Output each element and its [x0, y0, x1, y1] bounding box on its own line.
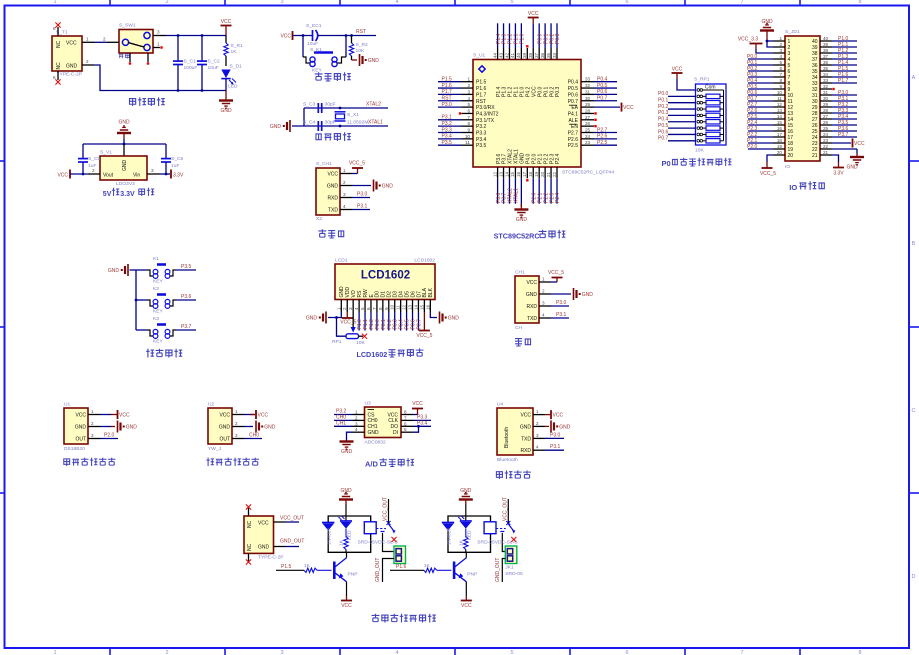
MCU pin 30 [581, 96, 617, 102]
svg-text:4: 4 [354, 307, 359, 310]
svg-text:P0.7: P0.7 [416, 319, 422, 330]
net P0.6 (pull-up) [658, 129, 696, 135]
net CH0 (liquid out) [244, 433, 262, 439]
IO pin 38 net P1.2 [820, 48, 857, 54]
svg-text:7: 7 [404, 415, 407, 420]
svg-text:12: 12 [492, 171, 497, 177]
ADC U3 ADC0832 body [353, 401, 414, 446]
svg-text:2: 2 [235, 421, 238, 426]
svg-text:44: 44 [492, 52, 497, 58]
connector S_CH1 (download) [316, 161, 352, 222]
MCU pin 2 [438, 83, 473, 89]
svg-text:P3.0/RX: P3.0/RX [476, 105, 495, 111]
svg-text:P0: P0 [662, 159, 671, 168]
capacitor S_C3 30pF [303, 102, 336, 127]
svg-text:P3.5: P3.5 [181, 264, 192, 270]
key K3 [136, 316, 176, 345]
svg-text:KEY: KEY [153, 339, 164, 345]
svg-text:P3.4: P3.4 [442, 134, 453, 140]
svg-text:8: 8 [858, 650, 861, 655]
svg-text:P0.5: P0.5 [658, 123, 669, 129]
svg-text:CH1: CH1 [336, 420, 346, 426]
svg-text:2: 2 [355, 415, 358, 420]
reset top rail [293, 34, 377, 37]
svg-text:2: 2 [165, 0, 168, 5]
svg-text:P0.4: P0.4 [568, 80, 579, 86]
capacitor S_C6 1uF [161, 144, 184, 174]
svg-text:P3.1/TX: P3.1/TX [476, 118, 495, 124]
svg-text:5: 5 [467, 102, 470, 107]
svg-text:GND: GND [258, 545, 270, 551]
no-connect X on RP1 [362, 334, 367, 339]
svg-text:1N4007: 1N4007 [327, 528, 333, 545]
MCU pin 6 [459, 108, 473, 114]
svg-text:20: 20 [540, 171, 545, 177]
svg-text:P3.0: P3.0 [550, 432, 561, 438]
svg-text:VCC: VCC [258, 413, 269, 419]
svg-text:GND_OUT: GND_OUT [375, 558, 381, 582]
MCU pin 28 [581, 108, 597, 114]
IO pin 32 net nc [820, 88, 835, 90]
IO pin 16 net P2.3 [747, 126, 785, 132]
top rail wire [166, 34, 226, 37]
no-connect X on T1 shield pins [55, 22, 60, 84]
svg-text:ADC0832: ADC0832 [365, 440, 386, 446]
svg-text:P0.3: P0.3 [555, 33, 561, 44]
svg-text:7: 7 [740, 650, 743, 655]
IO pin 4 net P0.0 [747, 54, 785, 60]
IO pin 35 net P1.5 [820, 66, 857, 72]
svg-text:P1.0: P1.0 [520, 33, 526, 44]
IO pin 20 to VCC_5 [760, 155, 785, 177]
designator SRD-05VDC-SL-C [477, 540, 518, 546]
svg-text:GND: GND [219, 425, 231, 431]
svg-text:P3.3: P3.3 [442, 127, 453, 133]
svg-text:P0.4: P0.4 [597, 77, 608, 83]
svg-text:TXD: TXD [527, 316, 537, 322]
svg-text:CH0: CH0 [249, 433, 259, 439]
caption A/D转换电路 [365, 458, 414, 468]
MCU pin 32 [581, 83, 617, 89]
MCU pin 3 [438, 89, 473, 95]
VCC port (RP1) [672, 67, 696, 91]
svg-text:17: 17 [522, 171, 527, 177]
svg-text:42: 42 [504, 52, 509, 58]
svg-text:39: 39 [522, 52, 527, 58]
net P3.0 (bt) [545, 432, 564, 438]
svg-text:31: 31 [585, 89, 591, 94]
switch S_SW1 [107, 23, 166, 63]
IO pin 31 net P3.0 [820, 90, 857, 96]
svg-text:P0.6: P0.6 [597, 89, 608, 95]
svg-text:6: 6 [625, 650, 628, 655]
svg-text:Bluetooth: Bluetooth [497, 457, 518, 463]
svg-text:5: 5 [510, 650, 513, 655]
svg-text:DS18B20: DS18B20 [64, 446, 85, 452]
svg-text:6: 6 [53, 75, 56, 80]
net P3.2 (ADC CS) [334, 409, 353, 415]
VCC power port (power circuit) [221, 19, 232, 36]
VCC port (liquid) [244, 410, 268, 419]
svg-text:P3.2: P3.2 [442, 121, 453, 127]
svg-text:1: 1 [536, 409, 539, 414]
svg-text:1: 1 [336, 307, 341, 310]
svg-text:STC89C52RC_LQFP44: STC89C52RC_LQFP44 [562, 170, 614, 176]
svg-text:P1.5: P1.5 [476, 80, 487, 86]
LCD pin 6 net P1.2 [369, 312, 375, 331]
svg-text:P3.5: P3.5 [442, 140, 453, 146]
IO pin 5 net P0.1 [747, 60, 785, 66]
svg-text:32: 32 [585, 83, 591, 88]
svg-text:P1.5: P1.5 [442, 77, 453, 83]
IO pin 21 net 3.3V [820, 155, 844, 177]
svg-text:NC: NC [56, 62, 62, 70]
IO pin 23 net VCC [820, 139, 865, 148]
svg-text:S_K1: S_K1 [310, 47, 322, 53]
svg-text:GND: GND [122, 160, 128, 172]
caption 晶振电路 [316, 132, 351, 141]
resistor 1K (led) [458, 529, 468, 550]
net CH1 (ADC) [334, 420, 353, 426]
LCD pin stubs [336, 300, 430, 313]
svg-text:GND: GND [368, 430, 380, 436]
LCD pin 4 net P1.0 [357, 312, 363, 331]
svg-text:S_C5: S_C5 [88, 156, 101, 162]
svg-text:Vin: Vin [133, 173, 140, 179]
MCU pin 37 [534, 23, 543, 59]
IO pin 12 net P2.7 [747, 102, 785, 108]
svg-text:D: D [912, 574, 916, 580]
LCD pin15 BLA to VCC_5 [416, 312, 432, 339]
svg-text:P0.1: P0.1 [658, 98, 669, 104]
svg-text:P3.1: P3.1 [442, 115, 453, 121]
VCC port (temp) [100, 410, 130, 419]
svg-text:S_RP1: S_RP1 [694, 77, 710, 83]
LCD pin16 BLK to GND [430, 312, 459, 324]
3.3V port (ldo output) [160, 170, 184, 179]
svg-text:TXD: TXD [521, 436, 531, 442]
svg-text:S_X1: S_X1 [347, 112, 359, 118]
net GND_OUT [274, 539, 305, 547]
svg-text:STC89C52RC: STC89C52RC [494, 232, 540, 241]
pin 1 VCC of T1 [82, 36, 94, 42]
svg-text:3.3V: 3.3V [833, 171, 844, 177]
svg-text:GND: GND [516, 217, 528, 223]
svg-text:35: 35 [546, 52, 551, 58]
svg-text:S_CH1: S_CH1 [316, 161, 332, 167]
svg-text:VCC: VCC [520, 413, 531, 419]
net P0.1 (pull-up) [658, 98, 696, 104]
MCU pin 7 [438, 115, 473, 121]
crystal bottom wire XTAL1 [292, 120, 388, 128]
IO pin 19 net P2.0 [747, 144, 785, 150]
svg-text:RST: RST [476, 99, 486, 105]
svg-text:2: 2 [342, 307, 347, 310]
svg-text:DI: DI [393, 430, 398, 436]
bottom rail + junctions [177, 89, 204, 92]
svg-text:3: 3 [235, 433, 238, 438]
GND port (serial) [551, 288, 593, 300]
svg-text:30: 30 [585, 96, 591, 101]
MCU pin 21 [546, 167, 555, 204]
svg-text:10K: 10K [356, 48, 365, 54]
svg-text:RP1: RP1 [332, 339, 342, 345]
net CH0 (ADC) [334, 414, 353, 420]
svg-text:VCC: VCC [66, 40, 77, 46]
MCU pin 36 [540, 23, 549, 59]
svg-text:ALE: ALE [569, 118, 579, 124]
svg-text:P3.7: P3.7 [838, 132, 849, 138]
svg-text:9: 9 [467, 128, 470, 133]
GND port (power circuit) [219, 91, 233, 115]
IO pin 40 net P1.0 [820, 36, 857, 42]
svg-text:A/D: A/D [365, 460, 379, 469]
svg-text:2: 2 [103, 36, 106, 41]
svg-text:10K: 10K [695, 148, 704, 154]
connector T2 TYPE-C-2P (relay supply) [244, 508, 284, 561]
IO pin 27 net P3.4 [820, 114, 857, 120]
svg-text:GND: GND [526, 292, 538, 298]
electrolytic capacitor S_EC1 10uF [306, 23, 322, 47]
GND port (keys) [108, 264, 136, 276]
svg-text:NC: NC [56, 40, 62, 48]
svg-text:4: 4 [542, 313, 545, 318]
MCU pin 43 [498, 23, 507, 59]
IO pins 1,2 to GND [766, 40, 785, 47]
relay frame [328, 516, 371, 552]
LCD pin 12 net P0.5 [405, 312, 411, 331]
emitter to VCC port [461, 582, 472, 609]
GND port (IO top) [760, 19, 774, 41]
MCU pin 41 [510, 23, 519, 59]
svg-text:VCC: VCC [341, 603, 352, 609]
svg-text:LCD1602: LCD1602 [361, 270, 410, 282]
svg-text:GND: GND [382, 184, 394, 190]
svg-text:VCC_5: VCC_5 [340, 320, 356, 326]
IO pin 10 net P0.6 [747, 90, 785, 96]
svg-text:2: 2 [343, 180, 346, 185]
MCU pin 38 [528, 23, 533, 59]
MCU pin 29 [581, 102, 634, 112]
svg-text:15: 15 [419, 304, 424, 310]
MCU U1 STC89C52RC body [473, 53, 614, 176]
svg-text:1: 1 [53, 650, 56, 655]
svg-text:KEY: KEY [312, 68, 323, 74]
IO header right pin numbers [812, 36, 829, 159]
IO pin 7 net P0.3 [747, 72, 785, 78]
svg-text:GND: GND [559, 425, 571, 431]
svg-text:33: 33 [585, 77, 591, 82]
svg-text:VCC: VCC [461, 603, 472, 609]
svg-text:VCC: VCC [119, 413, 130, 419]
svg-text:VCC_5: VCC_5 [416, 333, 432, 339]
GND port (relay) [459, 488, 473, 516]
GND port (crystal) [270, 120, 290, 132]
svg-text:RXD: RXD [520, 448, 531, 454]
MCU pin 16 [516, 167, 521, 207]
net P1.6 (relay2 input) [390, 564, 424, 570]
svg-text:VCC_5: VCC_5 [349, 161, 365, 167]
VCC port (ADC) [412, 401, 423, 415]
MCU pin 27 [581, 115, 597, 121]
IO pin 37 net P1.3 [820, 54, 857, 60]
svg-text:P0.6: P0.6 [658, 129, 669, 135]
svg-text:LCD1: LCD1 [335, 258, 348, 264]
resistor S_R2 10K [349, 36, 368, 61]
net P0.3 (pull-up) [658, 110, 696, 116]
resistor 1K (led) [339, 529, 349, 550]
svg-text:S_C1: S_C1 [184, 59, 197, 65]
connector CH1 (serial) [515, 270, 551, 332]
svg-text:VCC: VCC [219, 413, 230, 419]
LCD pin 9 net P0.2 [387, 312, 393, 331]
svg-text:P0.0: P0.0 [658, 91, 669, 97]
transistor PNP [334, 552, 357, 581]
svg-text:30pF: 30pF [325, 102, 336, 108]
LCD pin 7 net P0.0 [375, 312, 381, 331]
svg-text:TXD: TXD [328, 208, 338, 214]
svg-text:41: 41 [510, 52, 515, 58]
MCU pin 19 [534, 167, 543, 204]
svg-text:VCC: VCC [854, 141, 865, 147]
svg-text:1uF: 1uF [171, 163, 179, 169]
svg-text:29: 29 [585, 102, 591, 107]
svg-text:30pF: 30pF [325, 120, 336, 126]
svg-text:Com: Com [705, 85, 716, 91]
svg-text:GND: GND [220, 108, 232, 114]
no-connect X (relay NC contact) [391, 537, 396, 542]
MCU pin 17 [522, 167, 528, 182]
svg-text:P3.6: P3.6 [181, 294, 192, 300]
caption STC89C52RC主芯片 [494, 230, 566, 241]
net P3.1 (bt) [545, 444, 564, 450]
svg-text:OUT: OUT [219, 437, 230, 443]
svg-text:1: 1 [467, 77, 470, 82]
keys vertical bus [135, 270, 138, 330]
base resistor 1K [424, 563, 452, 573]
svg-text:40: 40 [516, 52, 521, 58]
MCU pin 25 [581, 127, 617, 133]
svg-text:P2.6: P2.6 [568, 137, 579, 143]
LCD pin2 to VCC_5 [340, 312, 356, 326]
svg-text:GND: GND [126, 425, 138, 431]
svg-text:A: A [912, 75, 916, 81]
IO pin 17 net P2.2 [747, 132, 785, 138]
svg-text:S_EC1: S_EC1 [306, 23, 322, 29]
LCD pin 13 net P0.6 [411, 312, 417, 331]
svg-text:26: 26 [585, 121, 591, 126]
svg-text:3: 3 [151, 168, 154, 173]
svg-text:3.3V: 3.3V [173, 173, 184, 179]
svg-text:1uF: 1uF [88, 163, 96, 169]
svg-text:PNP: PNP [467, 572, 477, 578]
svg-text:S_C3: S_C3 [303, 102, 316, 108]
caption 蓝牙模块 [496, 470, 530, 479]
svg-text:11: 11 [465, 140, 470, 145]
svg-text:RST: RST [356, 29, 366, 35]
svg-text:P3.5: P3.5 [476, 143, 487, 149]
svg-text:Bluetooth: Bluetooth [504, 427, 510, 448]
MCU pin 11 [438, 140, 473, 146]
svg-text:37: 37 [534, 52, 539, 58]
svg-text:3: 3 [467, 89, 470, 94]
svg-text:7: 7 [372, 307, 377, 310]
svg-text:SRD-05VDC-SL-C: SRD-05VDC-SL-C [477, 540, 518, 546]
svg-text:1N4007: 1N4007 [446, 528, 452, 545]
IO pin 29 net P3.2 [820, 102, 857, 108]
svg-text:16: 16 [516, 171, 521, 177]
svg-text:4: 4 [395, 650, 398, 655]
svg-text:VCC: VCC [258, 520, 269, 526]
svg-text:2: 2 [86, 59, 89, 64]
unconnected pin dots SW1 [129, 46, 163, 64]
svg-text:P0.7: P0.7 [658, 136, 669, 142]
svg-text:10uF: 10uF [307, 41, 318, 47]
svg-text:S_V1: S_V1 [100, 150, 112, 156]
svg-text:28: 28 [585, 108, 591, 113]
flyback diode 1N4007 [322, 523, 334, 546]
net P2.0 (temp out) [100, 433, 118, 439]
GND port (ADC) [340, 432, 354, 455]
svg-text:21: 21 [546, 171, 551, 177]
svg-text:19: 19 [534, 171, 539, 177]
svg-text:1: 1 [235, 409, 238, 414]
svg-text:B: B [912, 241, 916, 247]
LCD pin 11 net P0.4 [399, 312, 405, 331]
net P0.5 (pull-up) [658, 123, 696, 129]
svg-text:P0.4: P0.4 [658, 117, 669, 123]
svg-text:P1.7: P1.7 [838, 78, 849, 84]
GND port (relay) [339, 488, 353, 516]
caption 温度检测模块 [64, 458, 116, 466]
svg-text:LCD1602: LCD1602 [414, 258, 435, 264]
svg-text:VCC: VCC [221, 19, 232, 25]
resistor S_R1 1K [224, 36, 243, 67]
MCU pin 33 [581, 77, 617, 83]
pin 2 GND of T1 [82, 59, 94, 65]
svg-text:VCC: VCC [623, 105, 634, 111]
svg-text:VCC_OUT: VCC_OUT [280, 516, 304, 522]
IO pin 24 net P3.7 [820, 132, 857, 138]
net P3.0 (download RXD) [352, 192, 370, 198]
MCU pin 35 [546, 23, 555, 59]
svg-text:RXD: RXD [327, 196, 338, 202]
VCC power port (MCU top) [528, 11, 539, 23]
svg-text:11: 11 [396, 305, 401, 310]
net GND_OUT (connector pin2) [375, 558, 394, 582]
flyback diode 1N4007 [442, 523, 454, 546]
IO pin 6 net P0.2 [747, 66, 785, 72]
svg-text:16: 16 [425, 304, 430, 310]
LED S_D1 [221, 64, 242, 91]
caption LCD1602显示模块 [356, 348, 423, 359]
svg-text:VCC: VCC [327, 172, 338, 178]
svg-text:3: 3 [355, 421, 358, 426]
svg-text:8: 8 [467, 121, 470, 126]
VCC_5 port (download) [349, 161, 365, 174]
green connector JK [505, 546, 523, 577]
caption 串口 [515, 339, 531, 346]
svg-text:13: 13 [498, 171, 503, 177]
svg-text:XTAL2: XTAL2 [366, 102, 381, 108]
indicator LED (relay) [458, 516, 472, 540]
svg-text:5: 5 [404, 427, 407, 432]
MCU pin 1 [438, 77, 473, 83]
svg-text:24: 24 [585, 134, 591, 139]
svg-text:3: 3 [542, 301, 545, 306]
caption 电源电路 [130, 97, 165, 106]
svg-text:YW_J: YW_J [208, 446, 222, 452]
